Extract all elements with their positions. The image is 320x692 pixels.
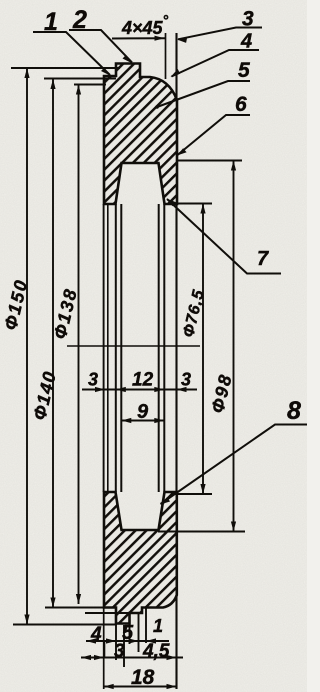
leader 2	[69, 30, 132, 63]
leader 1	[33, 32, 110, 75]
row2 line y657.5 : dims 3 and 4,5	[81, 657, 183, 659]
svg-text:5: 5	[238, 59, 250, 82]
svg-text:3: 3	[242, 8, 254, 31]
svg-text:4: 4	[90, 624, 102, 645]
dim line F76.5	[202, 204, 204, 495]
groove left wall edges seen through bore	[115, 204, 117, 492]
bore visible edge left (extension of left face)	[103, 204, 105, 492]
svg-text:3: 3	[114, 641, 125, 662]
ext line top F140	[44, 78, 116, 80]
dim line F98	[233, 161, 235, 532]
ext line bottom F98	[158, 531, 245, 533]
dim line 3-12-3	[82, 389, 197, 391]
ext verticals below part	[115, 624, 117, 661]
ext line top F98	[177, 160, 242, 162]
svg-text:1: 1	[153, 616, 163, 636]
ext line bottom F150	[13, 624, 116, 626]
dim line F138	[78, 85, 80, 605]
row3 line y686.5 : dim 18	[104, 686, 177, 688]
svg-text:6: 6	[235, 93, 247, 116]
svg-text:9: 9	[137, 401, 149, 423]
svg-text:4: 4	[240, 31, 252, 53]
svg-text:3: 3	[88, 370, 98, 390]
svg-text:12: 12	[132, 370, 154, 391]
svg-text:7: 7	[257, 248, 269, 270]
ext line top F150	[11, 67, 120, 69]
svg-text:3: 3	[181, 370, 191, 390]
leader 3 with outside arrow onto chamfer ext	[178, 28, 262, 40]
ext line top F138	[74, 84, 106, 86]
4x45 underline and arrow	[112, 37, 165, 39]
dim line F140	[52, 79, 54, 608]
leader 4	[172, 50, 260, 77]
bottom block of section (hatched)	[104, 492, 177, 624]
right face extension through bore and below	[175, 33, 177, 689]
dim line 9	[121, 420, 164, 422]
top block of section (hatched)	[104, 64, 177, 205]
chamfer extension line	[165, 33, 167, 79]
leader 6	[178, 115, 251, 155]
svg-text:2: 2	[72, 6, 87, 34]
ext line bottom F76.5	[171, 493, 212, 495]
ext line bottom F140	[45, 607, 110, 609]
dim line F150	[26, 68, 28, 625]
leader 5	[157, 81, 250, 107]
svg-text:8: 8	[287, 397, 301, 425]
centerline	[67, 345, 200, 347]
svg-text:18: 18	[131, 666, 155, 689]
leader 8	[161, 425, 308, 505]
leader 7	[167, 199, 281, 274]
ext line bottom F138	[85, 612, 130, 614]
svg-text:4,5: 4,5	[142, 641, 170, 662]
svg-text:1: 1	[44, 8, 58, 36]
row1 line y641 : dims 4 5 1	[86, 640, 169, 642]
ext line top F76.5	[170, 203, 212, 205]
groove right wall edges seen through bore	[158, 204, 160, 492]
